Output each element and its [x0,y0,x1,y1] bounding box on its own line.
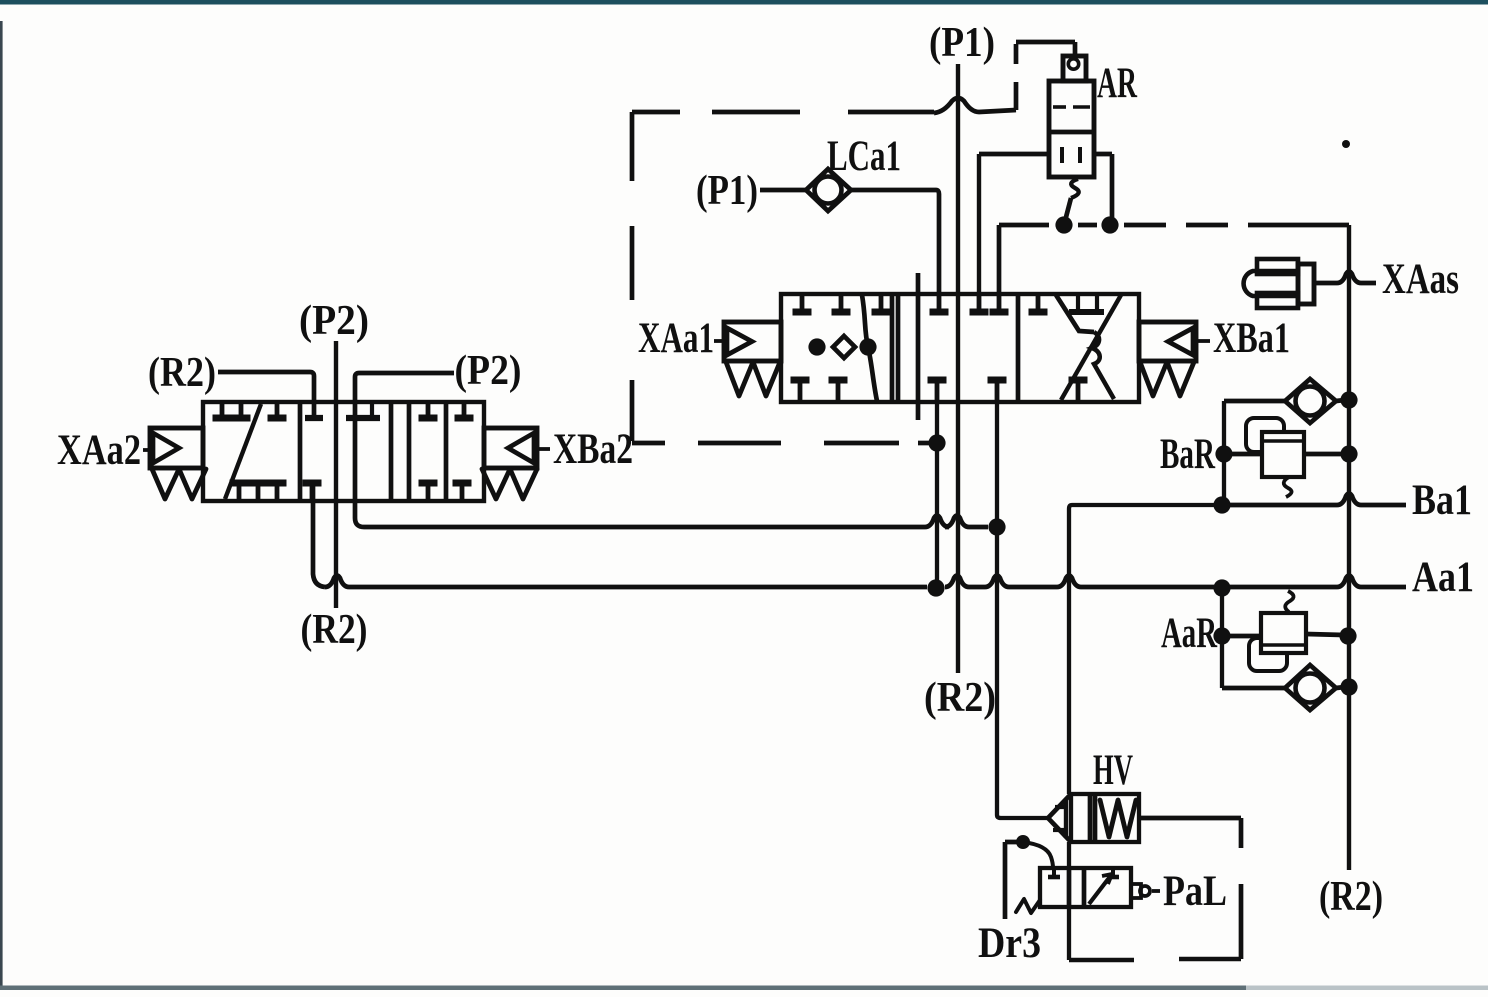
junction dot PaL pilot [1016,835,1030,849]
junction dot AaR check [1340,678,1357,695]
label XAa2 [57,427,150,474]
check valve LCa1 [806,169,851,211]
label (P1) left [696,168,758,214]
wire (R2) top-left to port [148,350,323,418]
junction dot BaR out [1340,445,1357,462]
main valve mid section top ports [930,295,1009,312]
plug XAas [1244,259,1314,308]
main valve through line x=918 [916,273,921,420]
label LCa1 [827,133,901,180]
main valve left section check dots and orifice [808,295,877,401]
wire XAas with crossing bump [1312,272,1376,284]
junction dot dashed boundary [928,434,945,451]
pilot actuator XBa1 [1139,322,1196,396]
wire (P2) top through valve to (R2) bottom [334,341,338,608]
HV outlet wire [1139,818,1241,848]
wire HV to PaL interconnect [1067,842,1071,868]
left valve divider 1 [298,402,303,501]
label BaR [1160,431,1216,478]
dashed boundary left vertical [630,112,635,441]
svg-text:(P2): (P2) [299,298,369,344]
left valve section C ports [419,403,438,500]
check valve AaR [1285,665,1345,710]
dashed boundary bottom edge [632,441,932,446]
PaL pilot line [1023,842,1053,868]
label Ba1 [1412,477,1472,524]
left valve body [203,402,484,501]
main valve mid section bottom ports [928,380,1007,401]
dashed boundary right vertical to AR [1016,42,1075,110]
junction dot BaR rail [1215,445,1232,462]
junction dot Ba1 left rail [1213,496,1230,513]
left valve mid ports [303,403,381,500]
junction dot BaR check [1340,391,1357,408]
left valve section A diagonal [225,404,261,499]
left valve section A bottom ports [230,483,287,500]
pilot actuator XAa2 [150,428,206,499]
label (P2) right [455,348,522,394]
wire Aa1 continues right [945,576,1406,588]
relief valve AaR [1222,591,1344,671]
PaL valve arrow [1048,868,1119,904]
left valve divider 3 [444,402,449,501]
label (R2) bottom right [1319,874,1383,920]
wire Ba1 drop x=1069 [1069,505,1222,794]
pilot actuator XAa1 [724,322,781,396]
junction dot Aa1 AaR rail [1213,579,1230,596]
svg-text:Aa1: Aa1 [1412,554,1474,601]
HV spring [1100,800,1136,837]
svg-text:HV: HV [1093,747,1133,794]
label (R2) below P1 line [924,675,996,721]
svg-text:AaR: AaR [1161,610,1218,657]
label XAa1 [638,315,723,362]
wire LCa1 to valve port [851,190,939,294]
junction dot AaR rail [1213,627,1230,644]
wire (P1) to LCa1 [760,188,806,193]
check valve BaR [1285,379,1345,423]
dashed pilot rail y=225 [999,223,1349,228]
label XBa2 [539,426,633,473]
svg-text:(R2): (R2) [924,675,996,721]
main valve left section top ports [793,295,891,312]
Dr3 drain stub [1005,842,1023,919]
page border left [0,21,3,990]
main right rail (R2) vertical [1347,225,1351,870]
wire Ba1 to label [1222,494,1406,506]
main valve left section bottom ports [791,380,848,401]
AR left port wire [979,154,1049,294]
PaL spring [1016,899,1040,913]
svg-text:LCa1: LCa1 [827,133,901,180]
left valve section A top ports [213,403,287,418]
svg-text:Ba1: Ba1 [1412,477,1472,524]
svg-text:BaR: BaR [1160,431,1216,478]
svg-text:Dr3: Dr3 [978,920,1041,967]
PaL bottom bracket [1069,907,1134,960]
main valve body [781,294,1139,402]
AR spring and bottom wire [1065,179,1079,221]
svg-text:XBa1: XBa1 [1213,315,1290,362]
label HV [1093,747,1133,794]
junction dot AR bottom [1055,216,1072,233]
main valve divider 1 [892,294,898,402]
HV poppet cone [1048,794,1071,842]
svg-text:XAa2: XAa2 [57,427,141,474]
wire pilot rail to valve port [997,225,1002,294]
pilot actuator XBa2 [482,428,537,499]
AR body [1049,81,1094,177]
dashed boundary top edge with (P1) crossing bump [632,98,1016,113]
ink speck [1342,140,1350,148]
AR right port wire [1094,154,1112,221]
svg-text:(R2): (R2) [301,607,368,653]
relief valve BaR [1224,418,1344,497]
wire valve drop x=997 to HV [997,402,1048,818]
wire valve drop x=937 [935,402,939,588]
page border top [0,0,1488,5]
svg-text:(R2): (R2) [148,350,216,396]
svg-text:(P1): (P1) [929,20,995,66]
junction dot Aa1 left [927,579,944,596]
label AR [1097,60,1138,107]
wire Aa1 long line [313,483,927,587]
svg-text:XBa2: XBa2 [553,426,633,473]
main valve right section crossed arrows [1056,295,1121,400]
junction dot AR right [1101,216,1118,233]
svg-text:AR: AR [1097,60,1138,107]
svg-text:XAas: XAas [1382,256,1459,303]
label XAas [1382,256,1459,303]
AaR rail [1222,588,1285,688]
svg-text:(P2): (P2) [455,348,522,394]
label AaR [1161,610,1218,657]
label XBa1 [1197,315,1290,362]
main valve right section bottom port [1069,380,1088,401]
left valve section D ports [453,403,474,500]
PaL valve body [1040,868,1131,907]
main valve right section top port [1029,295,1048,312]
label Aa1 [1412,554,1474,601]
label (R2) bottom left valve [301,607,368,653]
left valve divider 2 [391,402,409,501]
AR pilot cap [1063,56,1086,81]
BaR rail [1224,401,1285,503]
svg-text:PaL: PaL [1163,868,1227,915]
label (P2) top [299,298,369,344]
label (P1) top [929,20,995,66]
svg-text:(P1): (P1) [696,168,758,214]
PaL port and label [1131,868,1227,915]
HV body [1071,794,1139,842]
main valve divider 2 [1016,294,1021,402]
label Dr3 [978,920,1041,967]
HV outlet wire lower bracket [1179,884,1241,959]
wire (P1) vertical / R2 drop line [956,64,960,673]
wire P2-right / pump line to main drop [355,373,988,527]
svg-text:XAa1: XAa1 [638,315,714,362]
junction dot AaR out [1339,627,1356,644]
page border bottom [0,986,1488,991]
svg-text:(R2): (R2) [1319,874,1383,920]
junction dot pump line [988,518,1005,535]
